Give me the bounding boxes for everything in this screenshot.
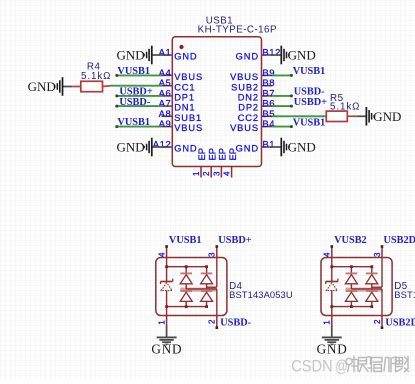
svg-text:VUSB1: VUSB1: [117, 117, 150, 128]
svg-text:VBUS: VBUS: [174, 72, 203, 82]
svg-text:DP1: DP1: [174, 93, 195, 103]
svg-text:VBUS: VBUS: [174, 123, 203, 133]
svg-text:VUSB1: VUSB1: [293, 66, 326, 77]
svg-text:KH-TYPE-C-16P: KH-TYPE-C-16P: [198, 24, 277, 35]
svg-text:4: 4: [223, 171, 232, 176]
svg-text:USBD-: USBD-: [220, 317, 251, 328]
svg-text:EP: EP: [228, 148, 238, 160]
svg-text:A9: A9: [159, 119, 172, 130]
svg-text:GND: GND: [174, 52, 197, 62]
svg-text:CC2: CC2: [238, 113, 259, 123]
svg-text:BST143A053U: BST143A053U: [394, 289, 415, 300]
svg-text:USB2D-: USB2D-: [385, 317, 415, 328]
svg-text:GND: GND: [28, 79, 56, 94]
svg-text:DP2: DP2: [238, 103, 259, 113]
svg-text:5.1kΩ: 5.1kΩ: [81, 71, 111, 82]
svg-text:GND: GND: [288, 48, 316, 63]
svg-text:VUSB1: VUSB1: [169, 235, 202, 246]
svg-text:VBUS: VBUS: [230, 72, 259, 82]
svg-text:1: 1: [323, 320, 332, 325]
svg-text:B12: B12: [262, 48, 281, 59]
svg-text:GND: GND: [117, 140, 145, 155]
svg-text:B1: B1: [262, 140, 275, 151]
svg-text:DN2: DN2: [238, 93, 259, 103]
svg-text:BST143A053U: BST143A053U: [229, 289, 293, 300]
svg-text:GND: GND: [174, 144, 197, 154]
svg-text:3: 3: [208, 252, 217, 257]
svg-text:EP: EP: [218, 148, 228, 160]
svg-text:GND: GND: [151, 342, 182, 357]
svg-text:4: 4: [323, 252, 332, 257]
svg-text:GND: GND: [373, 109, 401, 124]
svg-text:VUSB2: VUSB2: [334, 235, 367, 246]
svg-text:GND: GND: [236, 144, 259, 154]
svg-text:5.1kΩ: 5.1kΩ: [330, 102, 360, 113]
svg-text:GND: GND: [117, 48, 145, 63]
svg-text:A1: A1: [159, 48, 172, 59]
svg-text:GND: GND: [288, 140, 316, 155]
svg-text:B4: B4: [262, 119, 275, 130]
svg-text:SUB1: SUB1: [174, 113, 202, 123]
svg-text:3: 3: [212, 171, 221, 176]
svg-text:CSDN: CSDN: [291, 357, 333, 375]
svg-text:USB2D-: USB2D-: [384, 235, 415, 246]
svg-text:CC1: CC1: [174, 82, 195, 92]
svg-text:SUB2: SUB2: [231, 82, 259, 92]
svg-text:GND: GND: [236, 52, 259, 62]
svg-text:VUSB1: VUSB1: [293, 117, 326, 128]
svg-text:1: 1: [157, 320, 166, 325]
svg-text:VUSB1: VUSB1: [117, 66, 150, 77]
svg-text:1: 1: [192, 171, 201, 176]
svg-text:USBD+: USBD+: [218, 235, 251, 246]
svg-text:DN1: DN1: [174, 103, 195, 113]
svg-text:2: 2: [208, 319, 217, 324]
svg-text:2: 2: [373, 319, 382, 324]
svg-text:VBUS: VBUS: [230, 123, 259, 133]
svg-text:A12: A12: [153, 140, 172, 151]
svg-text:2: 2: [202, 171, 211, 176]
svg-text:4: 4: [157, 252, 166, 257]
svg-text:EP: EP: [197, 148, 207, 160]
svg-text:EP: EP: [207, 148, 217, 160]
svg-text:GND: GND: [317, 342, 348, 357]
svg-text:3: 3: [373, 252, 382, 257]
svg-text:USBD-: USBD-: [119, 97, 150, 108]
svg-text:USBD+: USBD+: [294, 97, 327, 108]
